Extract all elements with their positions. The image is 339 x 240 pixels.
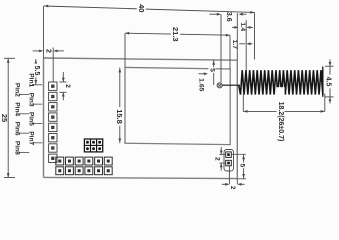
svg-text:18.2(26±0.7): 18.2(26±0.7) xyxy=(277,102,284,142)
svg-text:21.3: 21.3 xyxy=(171,27,180,42)
svg-text:1.65: 1.65 xyxy=(197,78,204,91)
svg-text:Pin5: Pin5 xyxy=(27,112,34,126)
svg-text:2: 2 xyxy=(44,49,51,53)
svg-text:3.6: 3.6 xyxy=(225,12,232,22)
svg-text:25: 25 xyxy=(0,114,9,122)
svg-text:Pin8: Pin8 xyxy=(13,141,20,155)
svg-text:4.5: 4.5 xyxy=(324,77,331,87)
svg-text:1.4: 1.4 xyxy=(239,22,246,31)
svg-text:Pin3: Pin3 xyxy=(27,93,34,107)
svg-text:1.7: 1.7 xyxy=(231,40,238,50)
svg-text:2: 2 xyxy=(229,186,236,190)
svg-text:40: 40 xyxy=(137,4,146,12)
svg-text:Pin1: Pin1 xyxy=(27,73,34,87)
svg-text:2: 2 xyxy=(64,84,71,88)
svg-text:5: 5 xyxy=(239,163,246,167)
svg-text:Pin6: Pin6 xyxy=(13,122,20,136)
svg-text:5: 5 xyxy=(208,68,215,72)
svg-text:Pin7: Pin7 xyxy=(27,131,34,145)
svg-text:15.8: 15.8 xyxy=(115,109,124,124)
svg-text:2: 2 xyxy=(214,157,221,161)
svg-text:Pin4: Pin4 xyxy=(13,102,20,116)
svg-text:Pin2: Pin2 xyxy=(13,83,20,97)
